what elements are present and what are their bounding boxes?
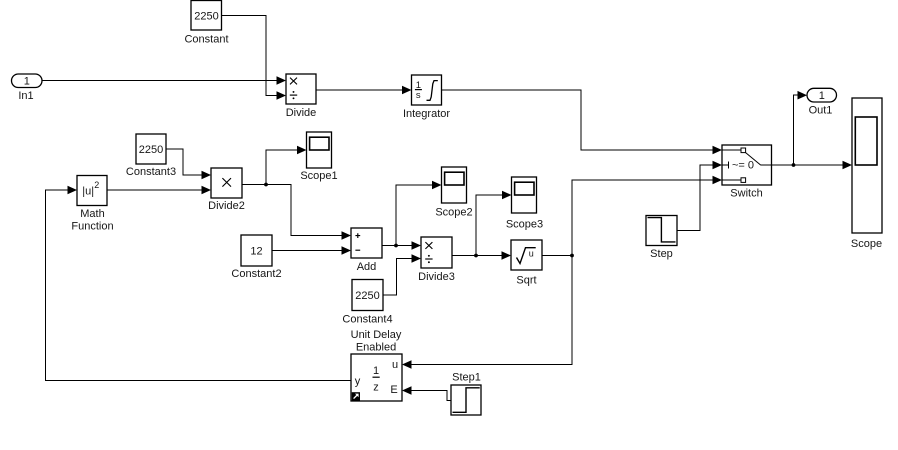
svg-text:u: u bbox=[529, 249, 534, 259]
block Divide bbox=[286, 74, 317, 119]
svg-text:Constant3: Constant3 bbox=[126, 166, 176, 178]
source Step bbox=[646, 216, 677, 261]
wire Sqrt output tee to Switch input3 and Unit Delay u bbox=[402, 176, 722, 369]
svg-text:y: y bbox=[355, 376, 361, 388]
block Sqrt bbox=[511, 240, 542, 287]
wire branch to Scope2 bbox=[396, 185, 433, 246]
svg-text:Unit Delay: Unit Delay bbox=[351, 329, 402, 341]
block Add bbox=[351, 228, 382, 273]
block Unit Delay Enabled bbox=[351, 329, 402, 401]
wire Step to Switch input2 bbox=[677, 161, 722, 231]
svg-text:z: z bbox=[373, 382, 379, 394]
wire Constant4 to Divide3 input2 bbox=[383, 254, 421, 295]
svg-text:Add: Add bbox=[357, 261, 377, 273]
wire Unit Delay y output feedback to Math Function bbox=[46, 186, 352, 381]
svg-text:Divide2: Divide2 bbox=[208, 200, 245, 212]
svg-text:2: 2 bbox=[94, 180, 99, 190]
svg-text:Sqrt: Sqrt bbox=[516, 275, 536, 287]
outport Out1 bbox=[807, 88, 837, 116]
svg-text:Constant: Constant bbox=[184, 34, 228, 46]
junction dot on Divide2 output bbox=[264, 183, 268, 187]
svg-text:Divide: Divide bbox=[286, 107, 317, 119]
svg-text:~= 0: ~= 0 bbox=[732, 160, 754, 172]
svg-text:12: 12 bbox=[250, 246, 262, 258]
svg-text:2250: 2250 bbox=[355, 290, 379, 302]
svg-text:2250: 2250 bbox=[194, 11, 218, 23]
inport In1 bbox=[12, 74, 43, 102]
svg-text:Scope2: Scope2 bbox=[435, 207, 472, 219]
wire branch up to Out1 bbox=[794, 95, 799, 165]
svg-text:1: 1 bbox=[819, 90, 825, 102]
block Integrator U=1/s bbox=[403, 75, 450, 120]
wire Switch output to Scope with branch to Out1 bbox=[772, 91, 853, 169]
svg-text:Constant4: Constant4 bbox=[342, 314, 392, 326]
svg-text:Step: Step bbox=[650, 248, 673, 260]
wire Divide2 to Add input1 with branch to Scope1 bbox=[242, 146, 351, 240]
svg-text:Divide3: Divide3 bbox=[418, 271, 455, 283]
svg-text:Scope1: Scope1 bbox=[300, 170, 337, 182]
source Step1 bbox=[451, 372, 481, 416]
wire Divide to Integrator bbox=[316, 86, 412, 95]
scope Scope1 bbox=[300, 132, 337, 182]
junction dot on Divide3 output bbox=[474, 254, 478, 258]
svg-text:Constant2: Constant2 bbox=[231, 268, 281, 280]
block Math Function |u|^2 bbox=[71, 176, 113, 233]
constant Constant2 bbox=[231, 235, 281, 280]
scope Scope2 bbox=[435, 167, 472, 219]
junction dot on Add output bbox=[394, 244, 398, 248]
svg-text:Function: Function bbox=[71, 221, 113, 233]
constant Constant bbox=[184, 1, 228, 46]
svg-text:u: u bbox=[392, 359, 398, 371]
wire Divide3 to Sqrt with branch to Scope3 bbox=[452, 191, 512, 260]
wire down to Unit Delay u input bbox=[411, 256, 573, 365]
svg-text:Enabled: Enabled bbox=[356, 342, 396, 354]
svg-text:Scope3: Scope3 bbox=[506, 219, 543, 231]
wire Constant to Divide input2 bbox=[222, 16, 287, 100]
scope Scope3 bbox=[506, 177, 543, 231]
scope Scope bbox=[851, 98, 882, 250]
wire Constant3 to Divide2 input1 bbox=[166, 149, 211, 179]
svg-text:Math: Math bbox=[80, 208, 104, 220]
badge on Unit Delay Enabled corner bbox=[352, 392, 360, 400]
svg-text:s: s bbox=[416, 90, 421, 101]
junction dot on Switch output bbox=[792, 163, 796, 167]
wire In1 to Divide input1 bbox=[42, 76, 286, 85]
wire branch to Scope1 bbox=[266, 150, 298, 185]
svg-text:In1: In1 bbox=[18, 90, 33, 102]
wire Step1 to Unit Delay E input bbox=[402, 386, 451, 400]
constant Constant3 bbox=[126, 134, 176, 178]
svg-text:|u|: |u| bbox=[82, 185, 94, 197]
svg-text:Integrator: Integrator bbox=[403, 108, 450, 120]
wire Add to Divide3 input1 with branch to Scope2 bbox=[382, 181, 442, 250]
block Switch bbox=[722, 145, 772, 200]
svg-text:Step1: Step1 bbox=[452, 372, 481, 384]
wire up to Switch input3 bbox=[572, 180, 714, 256]
block Divide2 bbox=[208, 168, 245, 212]
svg-text:E: E bbox=[390, 384, 397, 396]
block Divide3 bbox=[418, 237, 455, 283]
svg-text:Switch: Switch bbox=[730, 188, 762, 200]
svg-text:2250: 2250 bbox=[139, 144, 163, 156]
svg-text:1: 1 bbox=[373, 365, 379, 377]
svg-text:Scope: Scope bbox=[851, 238, 882, 250]
constant Constant4 bbox=[342, 280, 392, 326]
wire Constant2 to Add input2 bbox=[272, 246, 351, 255]
svg-text:1: 1 bbox=[24, 76, 30, 88]
wire branch to Scope3 bbox=[476, 195, 503, 256]
wire Math Function to Divide2 input2 bbox=[107, 186, 211, 195]
junction dot on Sqrt output bbox=[570, 254, 574, 258]
wire Integrator to Switch input1 bbox=[442, 90, 723, 154]
svg-text:Out1: Out1 bbox=[809, 105, 833, 117]
